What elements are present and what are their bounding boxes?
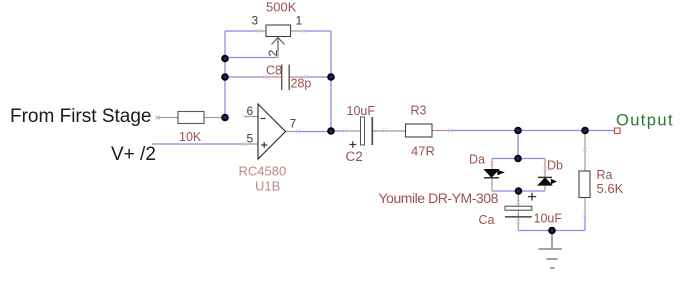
- svg-text:Da: Da: [469, 153, 485, 167]
- svg-text:From First Stage: From First Stage: [10, 106, 151, 127]
- svg-text:R3: R3: [411, 104, 427, 118]
- svg-text:5.6K: 5.6K: [597, 181, 624, 196]
- svg-text:RC4580: RC4580: [239, 163, 287, 178]
- svg-text:47R: 47R: [411, 144, 435, 159]
- svg-text:5: 5: [247, 132, 254, 146]
- svg-text:3: 3: [252, 14, 259, 28]
- svg-text:2: 2: [266, 50, 280, 57]
- svg-text:10uF: 10uF: [347, 104, 376, 118]
- svg-text:Youmile DR-YM-308: Youmile DR-YM-308: [379, 190, 499, 206]
- svg-text:10uF: 10uF: [534, 212, 563, 226]
- svg-text:10K: 10K: [179, 130, 202, 144]
- svg-text:1: 1: [296, 14, 303, 28]
- svg-text:500K: 500K: [266, 0, 297, 14]
- svg-text:Ca: Ca: [479, 213, 495, 227]
- svg-text:U1B: U1B: [255, 179, 280, 194]
- svg-text:Output: Output: [616, 111, 674, 129]
- svg-text:28p: 28p: [291, 77, 312, 91]
- svg-text:Db: Db: [547, 159, 563, 173]
- svg-text:7: 7: [290, 117, 297, 131]
- svg-text:6: 6: [247, 104, 254, 118]
- svg-text:V+ /2: V+ /2: [111, 144, 156, 165]
- svg-text:C2: C2: [346, 149, 363, 164]
- svg-text:C8: C8: [266, 64, 282, 78]
